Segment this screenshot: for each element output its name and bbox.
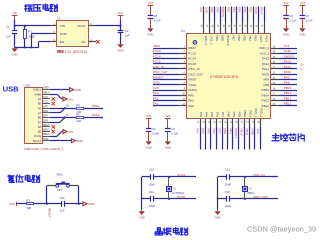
- svg-text:PA13: PA13: [262, 57, 270, 61]
- svg-text:U1: U1: [57, 17, 61, 21]
- svg-text:24: 24: [256, 121, 258, 124]
- svg-text:GND: GND: [299, 33, 305, 37]
- svg-text:3V3: 3V3: [284, 44, 290, 48]
- svg-text:USB-C16M_TYPE-C16PIN_1: USB-C16M_TYPE-C16PIN_1: [24, 147, 64, 151]
- svg-text:PB5: PB5: [238, 7, 242, 13]
- svg-text:PA14: PA14: [260, 7, 264, 14]
- svg-text:B1A12: B1A12: [33, 139, 42, 143]
- svg-text:B7: B7: [38, 120, 42, 124]
- svg-text:VDD_2: VDD_2: [259, 46, 269, 50]
- svg-text:GND: GND: [205, 7, 209, 13]
- svg-text:GND: GND: [60, 32, 68, 36]
- svg-text:NC: NC: [81, 40, 86, 44]
- svg-text:13: 13: [196, 121, 198, 124]
- svg-text:PB1: PB1: [232, 112, 236, 118]
- svg-text:22R: 22R: [77, 120, 82, 123]
- svg-text:41: 41: [238, 25, 240, 28]
- svg-text:PB3: PB3: [249, 7, 253, 13]
- svg-text:PC15: PC15: [188, 62, 196, 66]
- svg-text:PA7: PA7: [221, 112, 225, 118]
- svg-text:PA10: PA10: [284, 70, 292, 74]
- svg-text:PA2: PA2: [153, 102, 159, 106]
- svg-text:R4: R4: [77, 104, 81, 107]
- svg-text:44: 44: [222, 25, 224, 28]
- svg-text:PB14: PB14: [284, 91, 292, 95]
- svg-text:GND: GND: [74, 88, 82, 92]
- svg-text:VBUS: VBUS: [43, 91, 50, 94]
- svg-text:18: 18: [223, 121, 225, 124]
- svg-text:PC15: PC15: [177, 195, 185, 199]
- svg-text:PB3: PB3: [253, 35, 257, 41]
- svg-text:SW1: SW1: [57, 173, 64, 177]
- svg-text:PC14: PC14: [153, 54, 161, 58]
- svg-text:3V3: 3V3: [256, 129, 260, 135]
- svg-text:A8: A8: [38, 125, 42, 129]
- svg-text:19: 19: [229, 121, 231, 124]
- svg-text:PA6: PA6: [212, 129, 216, 135]
- svg-text:GND: GND: [284, 49, 292, 53]
- svg-text:PB0: PB0: [226, 112, 230, 118]
- svg-text:PA10: PA10: [262, 73, 270, 77]
- svg-text:OSC_OUT: OSC_OUT: [188, 73, 203, 77]
- svg-text:GND: GND: [88, 202, 96, 206]
- svg-text:GND: GND: [139, 216, 145, 220]
- svg-text:PA3: PA3: [199, 112, 203, 118]
- svg-text:20: 20: [234, 121, 236, 124]
- svg-text:10pF: 10pF: [149, 204, 156, 208]
- svg-text:GND: GND: [11, 53, 17, 57]
- svg-text:PA1: PA1: [153, 96, 159, 100]
- svg-text:PA11: PA11: [262, 67, 269, 71]
- svg-text:VBAT: VBAT: [153, 44, 161, 48]
- svg-text:PA8: PA8: [284, 81, 290, 85]
- svg-text:D+: D+: [301, 63, 305, 66]
- svg-text:SBU2: SBU2: [43, 129, 50, 132]
- svg-text:PA15: PA15: [254, 7, 258, 14]
- svg-text:OSC_OUT: OSC_OUT: [153, 70, 168, 74]
- svg-text:PA15: PA15: [259, 35, 263, 42]
- svg-text:38: 38: [255, 25, 257, 28]
- svg-text:D+: D+: [66, 105, 70, 108]
- svg-text:A6: A6: [38, 106, 42, 110]
- svg-text:1uF: 1uF: [6, 34, 11, 38]
- svg-text:VDDA: VDDA: [188, 88, 197, 92]
- svg-text:VDD_3: VDD_3: [204, 35, 208, 45]
- svg-text:GND: GND: [153, 81, 161, 85]
- svg-text:48: 48: [200, 25, 202, 28]
- svg-text:37: 37: [260, 25, 262, 28]
- svg-text:PA3: PA3: [196, 129, 200, 135]
- svg-text:3V3: 3V3: [146, 114, 151, 118]
- svg-text:CSDN @taeyeon_39: CSDN @taeyeon_39: [247, 224, 316, 233]
- svg-text:VBUS: VBUS: [43, 133, 50, 136]
- svg-text:GND: GND: [76, 139, 84, 143]
- svg-text:C6: C6: [289, 14, 293, 18]
- svg-text:39: 39: [249, 25, 251, 28]
- svg-text:20pF: 20pF: [149, 182, 156, 186]
- svg-text:43: 43: [227, 25, 229, 28]
- svg-text:14: 14: [201, 121, 203, 124]
- svg-text:B6: B6: [38, 116, 42, 120]
- svg-text:PC13: PC13: [188, 52, 196, 56]
- svg-text:OSC_IN: OSC_IN: [253, 173, 264, 177]
- svg-text:OSC_IN: OSC_IN: [188, 67, 199, 71]
- svg-text:VSS_2: VSS_2: [260, 52, 270, 56]
- svg-text:C3: C3: [152, 127, 156, 131]
- svg-text:A5: A5: [38, 97, 42, 101]
- svg-text:PA8: PA8: [263, 83, 269, 87]
- svg-text:KEY: KEY: [57, 188, 63, 192]
- svg-text:DN1: DN1: [43, 110, 49, 113]
- svg-text:PB0: PB0: [223, 129, 227, 135]
- svg-text:PB10: PB10: [243, 110, 247, 118]
- svg-text:PA2: PA2: [188, 104, 194, 108]
- svg-text:R5: R5: [77, 114, 81, 117]
- svg-text:GND: GND: [43, 87, 49, 90]
- svg-text:PB6: PB6: [237, 35, 241, 41]
- svg-text:PB11: PB11: [248, 110, 252, 117]
- svg-text:R3: R3: [26, 199, 30, 203]
- svg-text:C1: C1: [6, 25, 10, 29]
- svg-text:DN2: DN2: [43, 119, 49, 122]
- svg-text:PB8: PB8: [220, 35, 224, 41]
- svg-text:1: 1: [184, 45, 186, 48]
- svg-text:GND: GND: [117, 49, 123, 53]
- svg-text:PB9: PB9: [215, 35, 219, 41]
- svg-text:3V3: 3V3: [284, 1, 289, 5]
- svg-text:PA12: PA12: [92, 113, 100, 117]
- svg-text:GND: GND: [251, 129, 255, 135]
- svg-text:C11: C11: [60, 196, 65, 200]
- svg-text:PC14: PC14: [188, 57, 196, 61]
- svg-text:PB15: PB15: [284, 86, 292, 90]
- svg-text:16: 16: [212, 121, 214, 124]
- svg-text:C13: C13: [225, 190, 231, 194]
- svg-text:Y1: Y1: [173, 187, 177, 191]
- svg-text:Y2: Y2: [248, 187, 252, 191]
- svg-text:RESET: RESET: [48, 208, 52, 218]
- svg-text:C2: C2: [125, 29, 129, 33]
- svg-text:PB9: PB9: [210, 7, 214, 13]
- svg-text:BOOT0: BOOT0: [226, 35, 230, 45]
- svg-text:RESET: RESET: [153, 75, 163, 79]
- svg-text:NRST: NRST: [188, 78, 196, 82]
- svg-text:USB: USB: [3, 84, 20, 93]
- svg-text:22: 22: [245, 121, 247, 124]
- svg-text:VBAT: VBAT: [188, 46, 196, 50]
- svg-text:PB13: PB13: [262, 99, 270, 103]
- svg-text:PA11: PA11: [284, 65, 291, 69]
- svg-text:VSS_3: VSS_3: [209, 35, 213, 45]
- svg-text:U3: U3: [181, 29, 185, 33]
- svg-text:D-: D-: [66, 114, 69, 117]
- svg-text:D-: D-: [301, 69, 304, 72]
- svg-text:CC2: CC2: [43, 101, 49, 104]
- svg-text:20pF: 20pF: [225, 182, 232, 186]
- svg-text:GND: GND: [283, 33, 289, 37]
- svg-text:VDD_1: VDD_1: [259, 108, 263, 118]
- svg-text:3V3: 3V3: [148, 1, 153, 5]
- svg-text:PA7: PA7: [218, 129, 222, 135]
- svg-text:+5V: +5V: [12, 11, 17, 15]
- svg-text:C11: C11: [149, 190, 154, 194]
- svg-text:BOOT0: BOOT0: [221, 7, 225, 17]
- svg-text:GND: GND: [165, 146, 171, 150]
- svg-text:10pF: 10pF: [225, 204, 232, 208]
- svg-text:USB1: USB1: [24, 83, 32, 87]
- svg-text:47: 47: [205, 25, 207, 28]
- svg-text:VIN: VIN: [60, 24, 65, 28]
- svg-text:4.7uF: 4.7uF: [154, 19, 161, 23]
- svg-text:C7: C7: [306, 14, 310, 18]
- svg-text:PA12: PA12: [262, 62, 270, 66]
- svg-text:SWDIO: SWDIO: [284, 54, 295, 58]
- svg-text:A4B9: A4B9: [34, 92, 41, 96]
- svg-text:PA9: PA9: [263, 78, 269, 82]
- svg-text:PC14: PC14: [177, 173, 185, 177]
- svg-text:C5: C5: [154, 14, 158, 18]
- svg-text:PA4: PA4: [201, 129, 205, 135]
- svg-text:+5V: +5V: [68, 97, 73, 101]
- svg-text:PB8: PB8: [216, 7, 220, 13]
- svg-text:PA1: PA1: [188, 99, 194, 103]
- svg-text:PA0: PA0: [153, 91, 159, 95]
- svg-text:B5: B5: [38, 102, 42, 106]
- svg-text:C10: C10: [149, 168, 155, 172]
- svg-text:EN: EN: [60, 40, 64, 44]
- svg-text:28: 28: [273, 87, 276, 90]
- svg-text:15: 15: [207, 121, 209, 124]
- svg-text:3V3: 3V3: [300, 1, 305, 5]
- svg-text:0.1uF: 0.1uF: [289, 19, 296, 23]
- svg-text:PA11: PA11: [92, 104, 99, 108]
- svg-text:SBU1: SBU1: [43, 124, 50, 127]
- svg-text:GND: GND: [214, 216, 220, 220]
- svg-text:C4: C4: [171, 127, 175, 131]
- svg-text:3V3: 3V3: [165, 114, 170, 118]
- svg-text:36: 36: [273, 45, 276, 48]
- svg-text:3V3: 3V3: [199, 7, 203, 13]
- svg-text:VSSA: VSSA: [188, 83, 197, 87]
- svg-text:17: 17: [218, 121, 220, 124]
- svg-text:PA5: PA5: [207, 129, 211, 135]
- svg-text:3.3V (S0T23-5): 3.3V (S0T23-5): [65, 50, 89, 54]
- svg-text:PB2: PB2: [237, 112, 241, 118]
- svg-text:PB7: PB7: [231, 35, 235, 41]
- svg-text:3V3: 3V3: [10, 202, 15, 206]
- svg-text:0.1uF: 0.1uF: [171, 132, 178, 136]
- svg-text:VSS_1: VSS_1: [254, 108, 258, 118]
- svg-text:3V3: 3V3: [153, 86, 159, 90]
- svg-text:PB15: PB15: [262, 88, 270, 92]
- svg-text:42: 42: [233, 25, 235, 28]
- svg-text:PC15: PC15: [153, 60, 161, 64]
- svg-text:GND: GND: [146, 146, 152, 150]
- svg-text:CC1: CC1: [43, 96, 49, 99]
- svg-text:PA14: PA14: [264, 35, 268, 42]
- svg-text:PB7: PB7: [227, 7, 231, 13]
- svg-text:46: 46: [211, 25, 213, 28]
- svg-text:0.1uF: 0.1uF: [152, 132, 159, 136]
- svg-text:+5V: +5V: [68, 130, 73, 134]
- svg-text:PB6: PB6: [232, 7, 236, 13]
- svg-text:B8: B8: [38, 130, 42, 134]
- svg-text:A7: A7: [38, 111, 42, 115]
- svg-text:PA0: PA0: [188, 94, 194, 98]
- svg-text:A1B12: A1B12: [33, 88, 42, 92]
- svg-text:BOOT1: BOOT1: [234, 129, 238, 139]
- svg-text:PA6: PA6: [215, 112, 219, 118]
- svg-text:PB13: PB13: [284, 96, 292, 100]
- svg-text:PA12: PA12: [284, 60, 292, 64]
- svg-text:40: 40: [244, 25, 246, 28]
- svg-text:C12: C12: [225, 168, 231, 172]
- svg-text:PB12: PB12: [284, 102, 292, 106]
- svg-text:9: 9: [184, 87, 186, 90]
- svg-text:PB5: PB5: [242, 35, 246, 41]
- svg-text:B4A9: B4A9: [34, 134, 41, 138]
- svg-text:PB14: PB14: [262, 94, 270, 98]
- svg-text:DP1: DP1: [43, 105, 48, 108]
- svg-text:PB11: PB11: [245, 129, 249, 136]
- svg-text:23: 23: [251, 121, 253, 124]
- svg-text:PB4: PB4: [243, 7, 247, 13]
- svg-text:PB4: PB4: [248, 35, 252, 41]
- svg-text:45: 45: [216, 25, 218, 28]
- svg-text:STM32F103C8T6: STM32F103C8T6: [210, 75, 238, 79]
- svg-text:OSC_OUT: OSC_OUT: [253, 195, 268, 199]
- svg-text:10K: 10K: [26, 206, 31, 210]
- svg-text:21: 21: [240, 121, 242, 124]
- svg-text:OSC_IN: OSC_IN: [153, 65, 165, 69]
- svg-text:PC13: PC13: [153, 49, 161, 53]
- svg-text:PA5: PA5: [210, 112, 214, 118]
- svg-text:PA9: PA9: [284, 75, 290, 79]
- svg-text:PA4: PA4: [204, 112, 208, 118]
- svg-text:VOUT: VOUT: [77, 24, 86, 28]
- svg-text:1uF: 1uF: [125, 34, 130, 38]
- svg-text:GND: GND: [43, 138, 49, 141]
- svg-text:GND: GND: [147, 33, 153, 37]
- svg-text:DP2: DP2: [43, 115, 48, 118]
- svg-text:1uF: 1uF: [60, 209, 65, 213]
- svg-text:0.1uF: 0.1uF: [306, 19, 313, 23]
- svg-text:PB10: PB10: [240, 129, 244, 136]
- svg-text:PB1: PB1: [229, 129, 233, 135]
- svg-text:VCC: VCC: [118, 11, 124, 15]
